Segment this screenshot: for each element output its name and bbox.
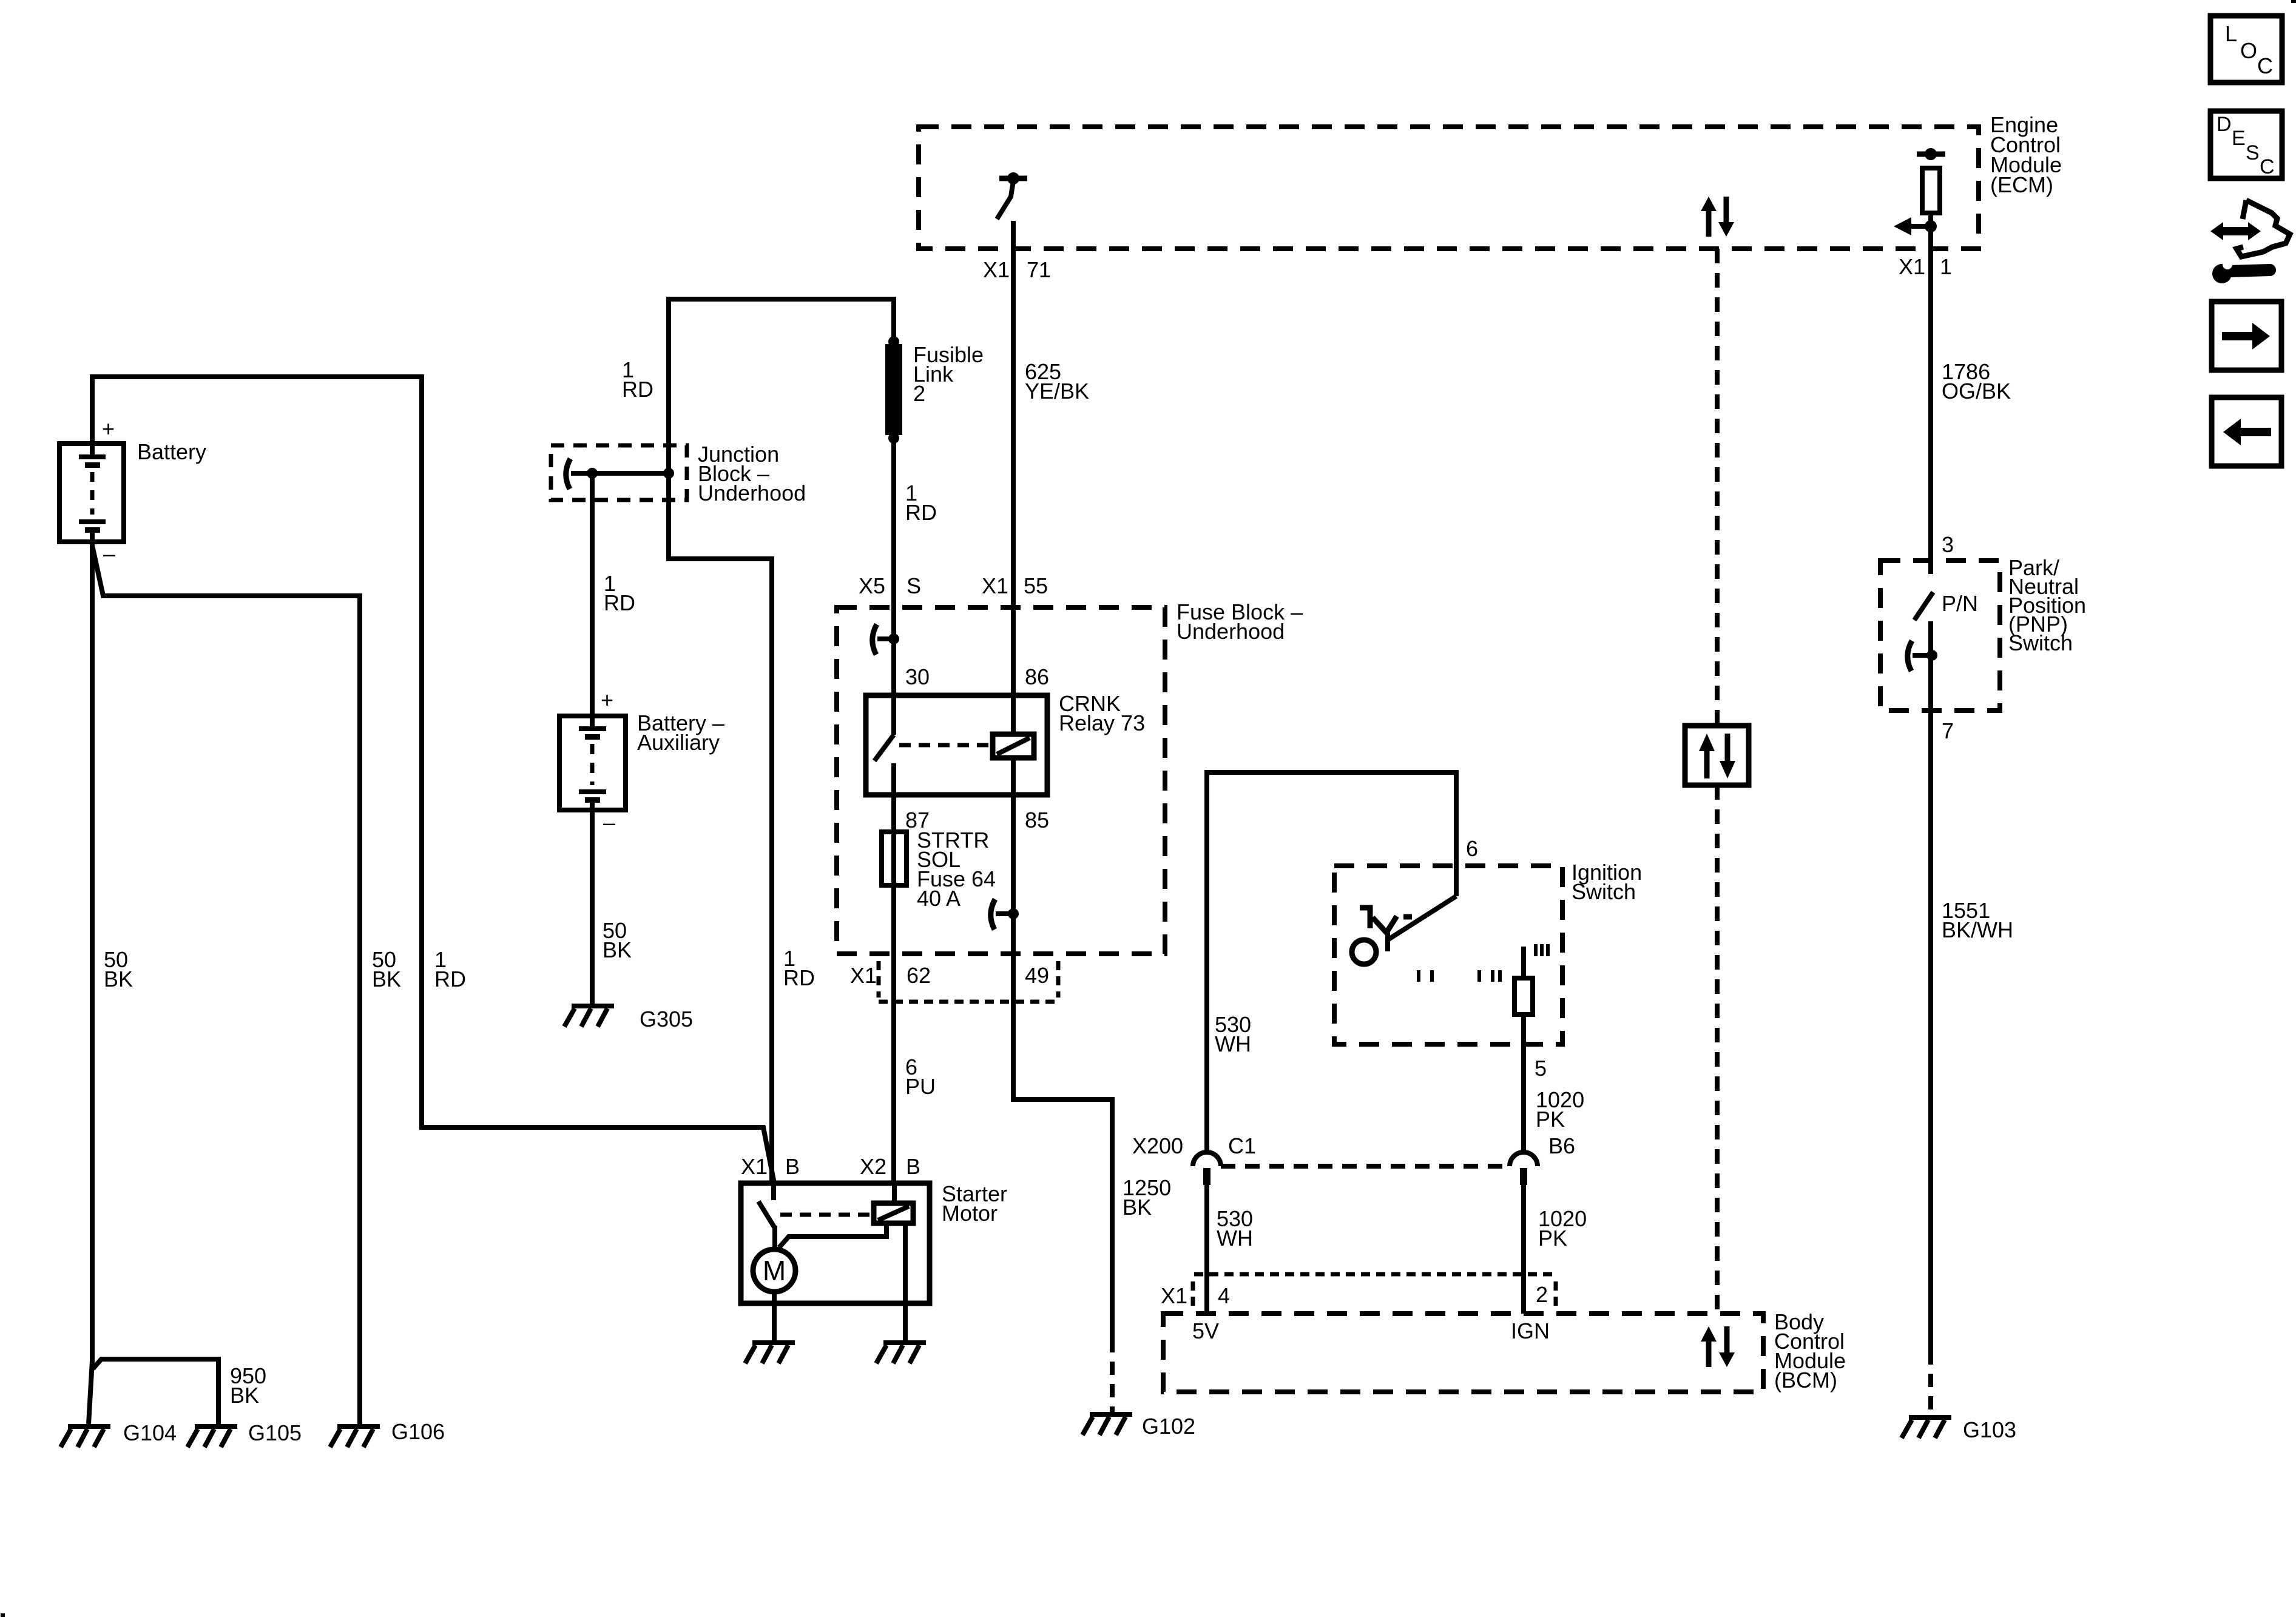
ECM comm arrows (up/down) [1701,197,1734,237]
svg-text:2: 2 [1536,1282,1548,1307]
svg-text:Relay 73: Relay 73 [1059,711,1145,735]
svg-text:M: M [763,1255,786,1286]
CRNK relay 73 [866,691,1145,795]
svg-text:(BCM): (BCM) [1774,1368,1837,1393]
icon next arrow box [2212,302,2281,370]
svg-text:X1: X1 [982,573,1008,598]
svg-text:Battery: Battery [137,439,206,464]
page mark (bottom left) [1,1613,5,1617]
svg-text:C: C [2260,155,2275,178]
serial data comm box [1685,726,1749,785]
svg-text:WH: WH [1215,1031,1251,1056]
svg-text:BK: BK [372,967,401,991]
grommet (fuse block S input) [873,624,877,655]
svg-text:BK: BK [1123,1195,1152,1220]
starter motor [741,1154,1007,1303]
svg-text:30: 30 [905,664,930,689]
wire relay 85 down to 49 [1011,795,1016,954]
svg-text:6: 6 [1466,836,1478,861]
ECM internal arrow to left [1894,217,1937,235]
wire 1020 PK B6 to BCM X1 2 [1521,1185,1526,1314]
wire battery+ to starter X1 B (top loop) [92,377,774,1183]
svg-text:Auxiliary: Auxiliary [637,730,720,755]
ground G104 [61,1426,110,1447]
battery (main) [59,416,206,566]
page mark (top right) [2291,0,2296,3]
starter solenoid contact [758,1183,871,1250]
ECM internal KAPWR resistor [1917,148,1945,226]
svg-text:Underhood: Underhood [1177,619,1285,644]
svg-text:BK: BK [104,967,133,991]
connector B6 [1510,1133,1575,1185]
wire solenoid to ground [903,1303,908,1340]
ignition position marks III [1536,944,1548,956]
svg-text:Underhood: Underhood [698,481,806,505]
PNP switch lever [1914,592,1933,620]
wire battery- branch to G106 (50 BK) [92,545,360,1424]
svg-text:1: 1 [1940,254,1952,279]
svg-text:BK: BK [230,1383,259,1408]
BCM comm arrows (up/down) [1701,1326,1735,1367]
ignition switch dashed box [1334,860,1642,1044]
wire junction block internal [571,471,669,476]
svg-text:S: S [2246,141,2260,164]
junction block - underhood (dashed box) [551,445,687,500]
svg-text:Switch: Switch [2008,630,2073,655]
svg-text:G305: G305 [640,1007,693,1031]
svg-text:86: 86 [1025,664,1049,689]
svg-text:L: L [2225,21,2237,46]
wire S to relay 30 [891,639,896,695]
svg-text:G105: G105 [248,1420,302,1445]
svg-text:5V: 5V [1192,1318,1219,1343]
svg-text:O: O [2240,38,2257,63]
svg-text:C: C [2257,53,2273,78]
ground G103 [1902,1417,1951,1438]
wire junction block to battery auxiliary [590,473,595,716]
serial data dashed line ECM to BCM [1715,249,1720,726]
svg-text:40 A: 40 A [917,886,961,911]
wire 1020 PK ignition 5 to B6 [1521,1044,1526,1153]
wire 6 PU fuse block to starter X2 B [891,954,896,1183]
icon component view (arrow, outline, wrench) [2210,200,2290,283]
svg-text:PK: PK [1536,1107,1565,1132]
node junction block right [663,468,674,479]
ignition key symbol [1352,908,1412,964]
svg-text:X1: X1 [1899,254,1925,279]
fuse block - underhood dashed box [837,599,1303,954]
svg-text:–: – [103,541,115,566]
svg-text:4: 4 [1218,1283,1230,1308]
ignition switch feed wire 530 WH up-over to terminal 6 [1207,772,1456,1152]
svg-text:P/N: P/N [1942,591,1978,616]
svg-text:2: 2 [913,381,925,406]
svg-text:S: S [907,573,921,598]
svg-text:WH: WH [1217,1226,1253,1251]
body control module dashed box [1163,1309,1846,1393]
svg-text:RD: RD [434,967,466,991]
svg-text:(ECM): (ECM) [1990,172,2053,197]
grommet (fuse block 49 output) [991,899,995,930]
svg-text:B: B [906,1154,920,1179]
svg-text:49: 49 [1025,963,1049,988]
svg-text:G102: G102 [1142,1414,1195,1439]
svg-text:IGN: IGN [1511,1318,1550,1343]
svg-text:+: + [102,416,115,441]
icon DESC box [2210,111,2282,178]
starter solenoid coil [779,1183,913,1303]
connector X200 C1 [1132,1133,1256,1185]
svg-text:7: 7 [1942,718,1954,743]
ignition switch lever [1388,896,1456,951]
svg-text:71: 71 [1027,257,1051,282]
dashed connector line X200 [1221,1164,1510,1169]
svg-text:Motor: Motor [942,1201,998,1226]
ignition position marks II [1419,970,1432,982]
svg-text:RD: RD [622,377,653,402]
wire 1551 BK/WH PNP to G103 [1928,621,1933,1351]
wire 1 RD junction block up-over to fusible link [669,299,894,473]
ground G105 [187,1426,237,1447]
icon LOC box [2210,16,2282,83]
wire 530 WH X200 to BCM X1 4 [1204,1185,1209,1314]
wire motor to ground [772,1292,777,1340]
svg-text:B6: B6 [1548,1133,1575,1158]
wire fuse 87 output down to X1 62 [891,885,896,954]
starter motor M [753,1249,795,1292]
svg-text:X1: X1 [983,257,1010,282]
ignition position marks I II [1479,970,1500,982]
battery - auxiliary [559,687,724,835]
ECM internal crank output switch [997,172,1027,219]
ECM dashed box [919,112,2062,249]
svg-text:X2: X2 [860,1154,886,1179]
STRTR SOL fuse 64 40A [882,795,996,911]
svg-text:BK: BK [603,937,632,962]
ground (starter motor) [745,1343,795,1363]
svg-text:RD: RD [905,500,937,525]
svg-text:B: B [785,1154,800,1179]
svg-text:X200: X200 [1132,1133,1183,1158]
svg-text:PU: PU [905,1074,936,1099]
svg-text:X1: X1 [1161,1283,1187,1308]
grommet (PNP) [1908,641,1912,671]
node junction block left [587,468,598,479]
fusible link 2 [885,336,984,444]
svg-text:E: E [2232,127,2246,150]
svg-text:BK/WH: BK/WH [1942,917,2013,942]
svg-text:Switch: Switch [1572,879,1636,904]
svg-text:PK: PK [1538,1226,1567,1251]
svg-text:D: D [2217,113,2232,136]
ground G305 [564,1006,614,1027]
wire battery- main down (50 BK) to G104 [89,544,92,1424]
svg-text:+: + [601,687,613,712]
svg-text:G104: G104 [123,1420,177,1445]
wire battery aux to G305 (50 BK) [590,812,595,1004]
svg-text:X1: X1 [850,963,877,988]
svg-text:RD: RD [783,965,815,990]
svg-text:X1: X1 [741,1154,768,1179]
svg-text:RD: RD [604,590,635,615]
ground G106 [330,1426,380,1447]
wire 1786 OG/BK ECM X1 1 to PNP switch [1928,226,1933,574]
svg-text:YE/BK: YE/BK [1025,379,1089,403]
svg-text:OG/BK: OG/BK [1942,379,2011,403]
wire 625 YE/BK ECM X1 71 to fuse block X1 55 [1011,221,1016,695]
svg-text:62: 62 [907,963,931,988]
park/neutral position switch dashed box [1880,555,2086,711]
wire 1 RD junction block down-over to starter X1 B [669,473,772,1183]
icon back arrow box [2212,397,2281,466]
ground (starter solenoid) [876,1343,926,1363]
ignition switch internal resistor [1514,947,1533,1044]
svg-text:G103: G103 [1963,1417,2016,1442]
svg-text:C1: C1 [1228,1133,1256,1158]
svg-text:5: 5 [1535,1056,1547,1081]
svg-text:85: 85 [1025,808,1049,832]
grommet (junction block) [566,459,570,489]
svg-text:X5: X5 [859,573,885,598]
svg-text:3: 3 [1942,532,1954,557]
fuse block X1 connector (dashed) [850,961,1058,1002]
wire 950 BK branch to G105 [93,1359,218,1424]
svg-text:–: – [603,810,615,835]
svg-text:G106: G106 [391,1419,445,1444]
wire 1 RD fusible link to fuse block S [891,438,896,639]
ground G102 [1082,1414,1132,1435]
wire 1250 BK relay coil ground to G102 [1013,954,1112,1339]
BCM X1 connector (dashed) [1161,1274,1556,1311]
svg-text:55: 55 [1024,573,1048,598]
